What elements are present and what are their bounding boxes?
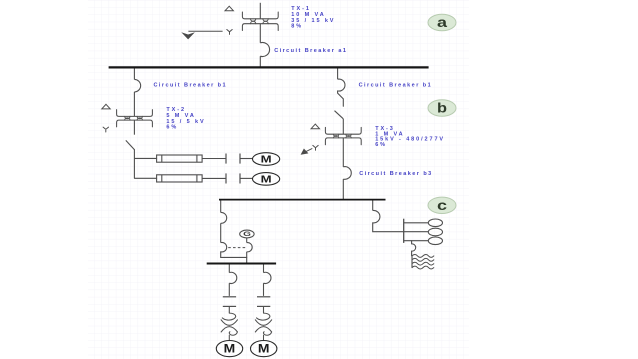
motor M4 xyxy=(251,341,277,357)
svg-text:Circuit Breaker a1: Circuit Breaker a1 xyxy=(274,48,347,54)
load L2 xyxy=(428,228,442,236)
svg-text:c: c xyxy=(437,197,447,213)
branch breaker M4 xyxy=(264,272,271,283)
wire: breaker b1 to TX-2 xyxy=(133,92,135,117)
wire: breaker to contact gap M4 xyxy=(263,283,265,296)
wire: bus c to feeder breaker c1 xyxy=(372,201,374,211)
starting reactor coil M3 xyxy=(221,313,237,341)
svg-text:Circuit Breaker b1: Circuit Breaker b1 xyxy=(359,83,432,89)
ground arrow (TX-1 neutral) xyxy=(181,32,195,39)
circuit breaker b1 (right) xyxy=(338,79,345,91)
contact gap 2 (left tick) xyxy=(225,173,227,183)
wire: breaker a1 to bus a xyxy=(259,56,261,67)
contact gap 1 (right tick) xyxy=(239,154,241,164)
wire: TX-3 to breaker b3 xyxy=(342,138,344,167)
contact gap M4 (bottom tick) xyxy=(257,305,270,307)
svg-text:Circuit Breaker b1: Circuit Breaker b1 xyxy=(154,83,227,89)
svg-text:6%: 6% xyxy=(375,142,387,148)
wire: contact gap to reactor M3 xyxy=(228,306,230,313)
svg-text:M: M xyxy=(258,344,270,356)
svg-text:6%: 6% xyxy=(166,125,178,131)
wire: breaker to contact gap M3 xyxy=(228,283,230,296)
wire: TX-1 to breaker a1 xyxy=(259,24,261,43)
svg-text:b: b xyxy=(437,100,447,116)
wire: contact gap 1 to motor M1 xyxy=(240,158,253,160)
wire: bus a to breaker b1 (right) xyxy=(337,69,339,80)
load bus riser xyxy=(403,219,405,243)
motor M1 xyxy=(253,153,280,166)
transformer TX-3 xyxy=(325,127,361,134)
wire: bus d to breaker M4 xyxy=(263,265,265,273)
branch breaker M3 xyxy=(229,272,236,283)
load L1 xyxy=(428,219,442,227)
wire: bus d to breaker M3 xyxy=(228,265,230,273)
wire: stub 3 to static load (jog) xyxy=(411,241,413,244)
wire: switch to TX-3 xyxy=(342,119,344,134)
wire: TX-2 to switch xyxy=(133,120,135,135)
contact gap M3 (top tick) xyxy=(223,296,236,298)
wire: breaker b1 to disconnect (jog) xyxy=(338,91,344,106)
generator G1 xyxy=(240,230,254,238)
contact gap M4 (top tick) xyxy=(257,296,270,298)
wire: contact gap 2 to motor M2 xyxy=(240,177,253,179)
disconnect switch (TX-3 primary) blade xyxy=(335,111,344,119)
contact gap 2 (right tick) xyxy=(239,173,241,183)
circuit breaker a1 xyxy=(260,42,269,56)
node label b xyxy=(428,100,456,116)
wire: generator breaker 1 to breaker 2 xyxy=(220,223,222,242)
delta symbol TX-2 primary xyxy=(102,104,110,109)
ground arrow (TX-3 neutral) xyxy=(301,149,309,155)
generator breaker 2 (left) xyxy=(221,242,227,252)
wire: fuse F1 to contact gap 1 xyxy=(202,158,226,160)
svg-text:M: M xyxy=(261,175,272,186)
bus c xyxy=(219,199,386,201)
svg-text:M: M xyxy=(224,344,236,356)
transformer TX-2 xyxy=(117,110,153,117)
wire: TX-3 neutral to ground xyxy=(306,148,312,151)
fuse F2 xyxy=(157,175,203,182)
wye symbol TX-3 secondary xyxy=(313,145,318,150)
fuse F1 xyxy=(157,155,203,162)
wire: fuse F2 to contact gap 2 xyxy=(202,177,226,179)
static load rail xyxy=(411,256,413,268)
disconnect switch (TX-2 secondary) blade xyxy=(126,140,135,149)
wire: switch to fuse taps xyxy=(134,150,156,179)
static load element 3 xyxy=(412,262,434,265)
svg-text:G: G xyxy=(243,231,251,238)
wye symbol TX-2 secondary xyxy=(103,127,108,132)
generator breaker 1 xyxy=(221,212,227,223)
wire: utility feed to TX-1 xyxy=(259,3,261,19)
static load element 1 xyxy=(412,254,434,257)
circuit breaker b3 xyxy=(343,167,351,180)
wire: gen branch to tie xyxy=(221,252,247,258)
wire: bus a to breaker b1 (left) xyxy=(133,69,135,80)
circuit breaker b1 (left) xyxy=(134,79,140,92)
wire: breaker c1 to load bus xyxy=(373,223,404,232)
svg-text:Circuit Breaker b3: Circuit Breaker b3 xyxy=(359,171,432,177)
starting reactor coil M4 xyxy=(255,313,271,341)
wire: generator breaker 3 to bus d xyxy=(246,252,248,263)
static load element 4 xyxy=(412,266,434,269)
generator breaker 3 (G line) xyxy=(247,243,252,252)
static load element 2 xyxy=(412,258,434,261)
wire: bus c to generator breaker 1 xyxy=(220,201,222,213)
svg-text:M: M xyxy=(261,155,272,166)
wye symbol TX-1 secondary xyxy=(227,30,232,35)
wire: load stub 1 xyxy=(404,222,429,224)
node label a xyxy=(428,14,456,30)
feeder breaker c1 xyxy=(373,210,380,222)
wire: breaker b3 to bus c xyxy=(342,179,344,200)
load L3 xyxy=(428,237,442,245)
wire: generator G1 to breaker xyxy=(246,238,248,243)
delta symbol TX-3 primary xyxy=(311,124,319,129)
svg-text:a: a xyxy=(437,14,447,30)
contact gap 1 (left tick) xyxy=(225,154,227,164)
node label c xyxy=(428,197,456,213)
svg-text:8%: 8% xyxy=(291,24,303,30)
motor M2 xyxy=(253,173,280,186)
wire: load stub 2 xyxy=(404,231,429,233)
bus d xyxy=(207,263,276,265)
delta symbol TX-1 primary xyxy=(225,6,233,11)
transformer TX-1 xyxy=(242,12,278,19)
wire: contact gap to reactor M4 xyxy=(263,306,265,313)
wire: load stub 3 xyxy=(404,240,429,242)
wire: TX-1 neutral to ground xyxy=(188,30,222,32)
contact gap M3 (bottom tick) xyxy=(223,305,236,307)
interlock dashed link xyxy=(228,247,246,249)
bus a xyxy=(109,66,429,68)
motor M3 xyxy=(216,341,242,357)
